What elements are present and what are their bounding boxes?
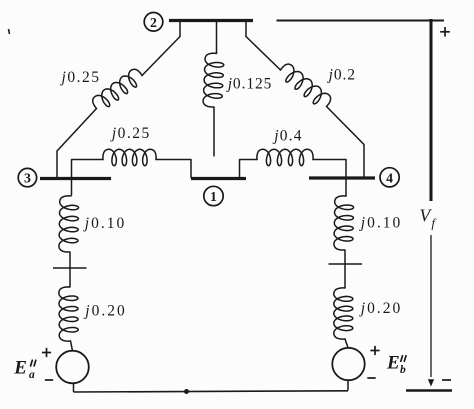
Vf minus sign (442, 379, 451, 381)
negative terminal bar bottom right (406, 389, 452, 392)
node 2 bus bar (169, 19, 253, 22)
wire node3 riser to j0.25 horizontal (72, 160, 104, 196)
inductor j0.125 (bus2-bus1) (203, 53, 224, 107)
inductor j0.25 (bus2-bus3) (93, 69, 142, 108)
node 4 bus bar (309, 176, 375, 179)
wire j0.20 to source Ea (71, 341, 73, 351)
wire source Ea to bottom wire (73, 383, 75, 392)
wire j0.4 to bus4 riser (313, 160, 346, 197)
speck mark top left (9, 29, 10, 34)
svg-text:b: b (400, 364, 406, 376)
Vf line lower with arrow (430, 235, 432, 377)
node 3 label (18, 168, 36, 186)
wire bus2 to inductor j0.2 (246, 37, 281, 71)
inductor j0.10 right (334, 196, 354, 250)
svg-text:E: E (386, 352, 400, 373)
svg-text:1: 1 (210, 189, 217, 204)
junction dot bottom wire (184, 389, 189, 394)
svg-text:E: E (13, 358, 27, 379)
Vf plus sign (440, 27, 450, 37)
svg-text:j0.20: j0.20 (83, 303, 126, 320)
wire bus2 to inductor j0.25 diagonal (142, 37, 180, 76)
svg-text:j0.2: j0.2 (327, 67, 356, 84)
svg-text:4: 4 (386, 170, 393, 185)
Ea minus sign (45, 379, 53, 381)
svg-text:2: 2 (150, 15, 157, 30)
fault point tick left (53, 267, 87, 269)
wire stub bus2 to j0.125 (216, 22, 218, 54)
node 1 label (204, 186, 223, 205)
Eb plus sign (370, 346, 379, 355)
Ea plus sign (42, 348, 51, 357)
wire top right to Vf (277, 20, 445, 22)
svg-text:j0.25: j0.25 (110, 125, 151, 142)
wire j0.10 to j0.20 right (344, 250, 346, 288)
inductor j0.20 left (59, 287, 78, 341)
svg-text:3: 3 (24, 171, 31, 186)
svg-text:a: a (29, 369, 35, 381)
wire bus1 to j0.4 (240, 160, 258, 178)
inductor j0.10 left (59, 196, 79, 252)
svg-text:j0.10: j0.10 (359, 215, 402, 232)
wire j0.25 horizontal to bus1 (156, 160, 191, 178)
wire inductor j0.2 to node 4 (327, 107, 365, 179)
node 2 label (144, 12, 163, 31)
voltage source Ea (56, 351, 89, 384)
fault point tick right (329, 263, 363, 265)
svg-text:j0.125: j0.125 (226, 76, 273, 93)
voltage source Eb (332, 348, 364, 380)
inductor j0.2 (bus2-bus4) (281, 64, 331, 106)
Ea label (13, 358, 36, 381)
wire j0.125 to bus1 (213, 107, 215, 157)
Vf line upper (thick) (430, 19, 433, 201)
Eb label (386, 352, 406, 376)
svg-text:j0.20: j0.20 (359, 300, 402, 317)
Vf arrowhead (428, 379, 434, 386)
wire stub bus2 to j0.2 diagonal (245, 22, 247, 37)
inductor j0.20 right (334, 288, 353, 339)
Eb minus sign (367, 377, 375, 379)
wire stub bus2 to j0.25 diagonal (179, 22, 181, 37)
inductor j0.25 (bus3-bus1) (103, 149, 156, 165)
wire inductor j0.25 to node 3 (57, 109, 97, 179)
svg-text:j0.25: j0.25 (60, 69, 101, 86)
wire source Eb to bottom wire (347, 380, 349, 390)
bottom wire Ea to Eb (74, 391, 349, 392)
inductor j0.4 (bus1-bus4) (257, 149, 313, 165)
node 1 bus bar (191, 177, 246, 180)
svg-text:j0.10: j0.10 (83, 215, 126, 232)
node 4 label (380, 168, 399, 187)
svg-text:Vf: Vf (420, 206, 438, 231)
svg-text:j0.4: j0.4 (272, 128, 303, 145)
wire j0.10 to j0.20 left (69, 252, 71, 287)
wire j0.20 to source Eb (345, 339, 348, 348)
node 3 bus bar (40, 177, 111, 180)
